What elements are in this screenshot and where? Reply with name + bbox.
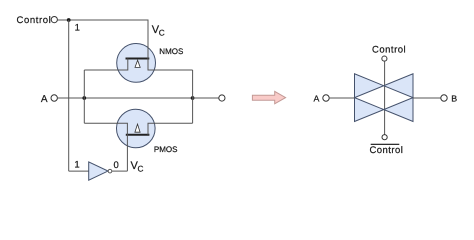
junction left branch <box>82 96 86 100</box>
terminal A (symbol) <box>323 95 329 101</box>
transistor NMOS M1 <box>84 20 192 82</box>
inverter U1 <box>89 162 112 180</box>
svg-text:C: C <box>159 27 165 37</box>
svg-text:0: 0 <box>114 160 119 171</box>
wire right branch vertical <box>192 70 194 123</box>
terminal Control top <box>382 56 387 61</box>
transmission gate symbol <box>355 74 414 122</box>
terminal output <box>219 95 225 101</box>
net label VC (top) <box>152 24 165 37</box>
wire inverter output <box>112 170 128 172</box>
overline of Control-bar <box>371 143 400 145</box>
terminal Control bottom <box>382 135 387 140</box>
block arrow (equivalence) <box>252 91 285 103</box>
wire control top horizontal <box>57 19 148 21</box>
svg-text:C: C <box>138 164 144 174</box>
terminal A <box>51 95 57 101</box>
junction right branch <box>191 96 195 100</box>
net label VC (bottom) <box>131 160 144 173</box>
svg-text:1: 1 <box>75 23 80 34</box>
junction control <box>67 18 71 22</box>
svg-text:NMOS: NMOS <box>159 47 183 56</box>
svg-text:Control: Control <box>370 145 404 156</box>
wire control vertical through symbol <box>384 61 386 134</box>
wire A horizontal <box>57 97 192 99</box>
svg-text:Control: Control <box>372 45 406 56</box>
svg-text:1: 1 <box>74 160 79 171</box>
svg-text:B: B <box>451 93 457 103</box>
wire A to symbol <box>329 97 354 99</box>
terminal B <box>441 95 447 101</box>
wire symbol to B <box>413 97 441 99</box>
svg-text:Control: Control <box>17 15 52 26</box>
wire control vertical drop <box>68 20 70 171</box>
transistor PMOS M2 <box>84 109 192 171</box>
wire inverter input <box>69 170 89 172</box>
svg-text:PMOS: PMOS <box>154 145 178 154</box>
svg-text:A: A <box>314 94 320 104</box>
terminal Control <box>51 17 57 23</box>
svg-text:A: A <box>41 94 48 105</box>
wire left branch vertical <box>83 70 85 123</box>
wire output <box>193 97 219 99</box>
